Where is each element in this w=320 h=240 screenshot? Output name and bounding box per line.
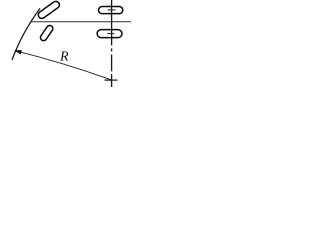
arrowhead bbox=[15, 50, 22, 54]
slot 4 center tick bbox=[107, 33, 114, 35]
dimension line R bbox=[15, 51, 111, 80]
slot 3 center tick bbox=[108, 9, 116, 11]
vertical centerline (dashed) bbox=[111, 0, 113, 87]
slot 4 (right bottom horizontal slot) bbox=[97, 30, 122, 38]
slot 2 (lower slanted slot) bbox=[39, 24, 54, 42]
svg-text:R: R bbox=[59, 49, 69, 64]
arc (bolt circle) bbox=[12, 8, 40, 60]
horizontal centerline bbox=[31, 21, 131, 23]
slot 1 (upper slanted slot) bbox=[37, 0, 61, 20]
center cross tick bbox=[105, 79, 118, 81]
slot 3 (right top horizontal slot) bbox=[99, 7, 123, 14]
